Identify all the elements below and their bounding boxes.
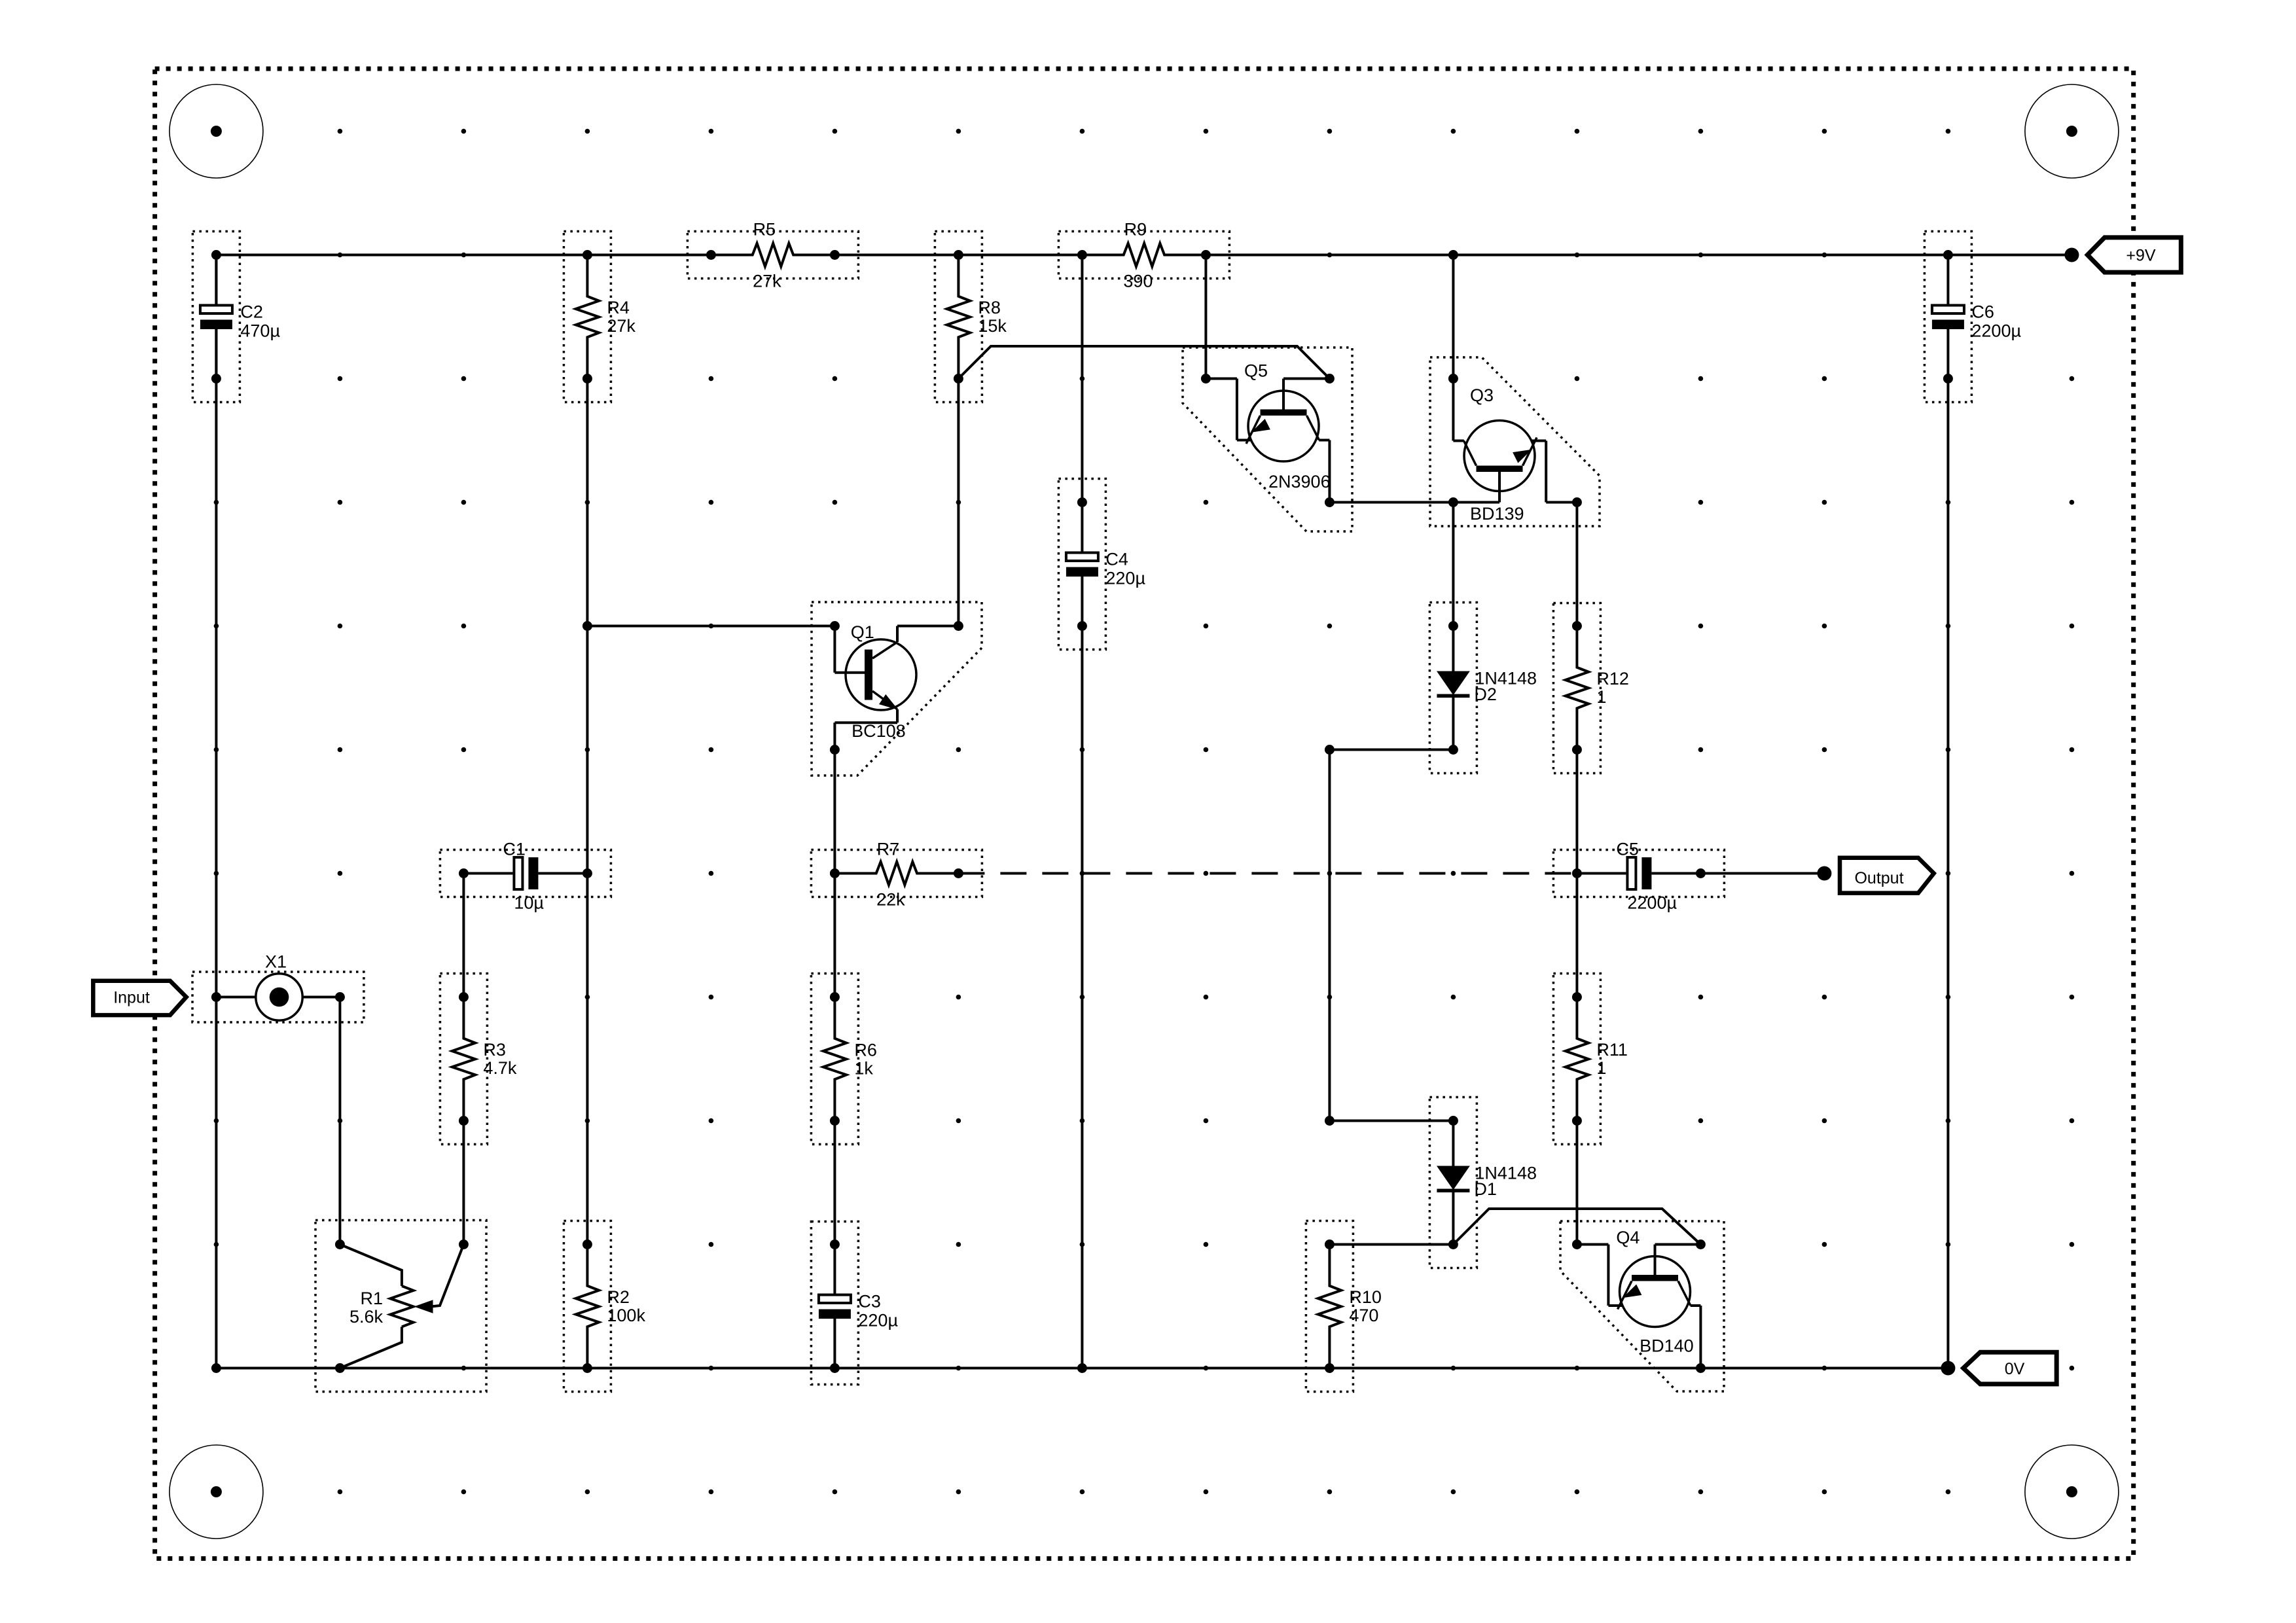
junction c2 r7 [459, 992, 469, 1002]
svg-text:C5: C5 [1616, 840, 1639, 859]
svg-text:2200µ: 2200µ [1627, 893, 1677, 913]
svg-text:2200µ: 2200µ [1971, 321, 2021, 341]
svg-text:10µ: 10µ [514, 893, 544, 913]
wire r8 link [1329, 1120, 1453, 1122]
junction c10 r3 [1448, 497, 1458, 507]
capacitor C3 [811, 1222, 858, 1385]
svg-text:R12: R12 [1596, 669, 1629, 688]
svg-text:R7: R7 [877, 840, 900, 859]
label Q1 [851, 622, 906, 741]
label C4 [1105, 550, 1145, 588]
svg-text:Output: Output [1854, 869, 1903, 887]
label R2 [607, 1287, 645, 1325]
capacitor C4 [1058, 479, 1105, 650]
junction c5 r5 [830, 745, 840, 755]
junction c5 r7 [830, 992, 840, 1002]
label X1 [265, 952, 287, 972]
junction c6 r1 [954, 250, 963, 260]
terminal 0V flag [1964, 1352, 2057, 1384]
wire c5 R7 to R6 [833, 874, 836, 997]
wire c0 vertical (C2/input column) [215, 255, 217, 1368]
label Q3 [1470, 385, 1524, 524]
svg-text:4.7k: 4.7k [483, 1058, 517, 1078]
wire c3 R4 to R2 [586, 379, 588, 1245]
wire c2 C1 to R3 [462, 874, 465, 997]
label Q4 [1616, 1228, 1693, 1356]
svg-text:1k: 1k [854, 1058, 873, 1078]
dashed feedback wire R7 to C5 [958, 872, 1577, 875]
junction c12 r10 [1696, 1363, 1706, 1373]
wire c11 Q3 emitter to R12 [1575, 503, 1578, 626]
label R12 [1596, 669, 1629, 707]
resistor R3 [440, 974, 487, 1145]
junction c11 r6 [1572, 868, 1582, 878]
svg-text:C1: C1 [503, 840, 526, 859]
junction c1 r10 [335, 1363, 345, 1373]
label R7 [876, 840, 905, 910]
junction c5 r1 [830, 250, 840, 260]
transistor Q5 [1183, 348, 1352, 531]
label R9 [1123, 220, 1153, 291]
page border [155, 69, 2134, 1559]
wire c1 X1 to R1 [338, 997, 341, 1245]
svg-text:15k: 15k [978, 316, 1007, 336]
svg-text:2N3906: 2N3906 [1268, 472, 1331, 491]
capacitor C6 [1924, 232, 1971, 402]
svg-text:390: 390 [1123, 272, 1153, 291]
label C3 [858, 1292, 898, 1330]
wire c10 rail to Q3 collector [1452, 255, 1454, 379]
junction c6 r4 [954, 621, 963, 631]
resistor R5 [687, 232, 858, 279]
junction c11 r4 [1572, 621, 1582, 631]
junction c12 r9 [1696, 1240, 1706, 1249]
resistor R11 [1553, 974, 1600, 1145]
wire R8 bridge to Q5 base [958, 346, 1329, 379]
label R10 [1349, 1287, 1382, 1325]
svg-text:Q1: Q1 [851, 622, 874, 642]
svg-text:220µ: 220µ [858, 1311, 898, 1330]
terminal +9V flag [2087, 238, 2181, 272]
svg-text:C3: C3 [858, 1292, 881, 1311]
junction c11 r9 [1572, 1240, 1582, 1249]
junction c9 r10 [1325, 1363, 1335, 1373]
wire c11 R12 to C5 node [1575, 750, 1578, 874]
junction c11 r3 [1572, 497, 1582, 507]
wire r4 base feed [587, 625, 834, 628]
junction c3 r4 [583, 621, 592, 631]
junction c3 r1 [583, 250, 592, 260]
svg-text:100k: 100k [607, 1306, 645, 1325]
resistor R12 [1553, 603, 1600, 774]
svg-text:R3: R3 [483, 1040, 506, 1060]
corner registration circle top-right [2025, 84, 2119, 178]
junction c0 r7 [211, 992, 221, 1002]
label R4 [607, 298, 636, 336]
svg-text:C4: C4 [1105, 550, 1128, 569]
terminal Output flag [1840, 858, 1934, 893]
wire c11 C5 node to R11 [1575, 874, 1578, 997]
junction c2 r6 [459, 868, 469, 878]
label 0V [2005, 1360, 2025, 1378]
wire c6 R8 to Q1 collector [957, 379, 960, 626]
svg-text:+9V: +9V [2126, 247, 2156, 265]
svg-text:1: 1 [1596, 1058, 1606, 1078]
junction c3 r10 [583, 1363, 592, 1373]
junction c0 r10 [211, 1363, 221, 1373]
resistor R6 [811, 974, 858, 1145]
wire c5 Q1 emitter to R7 [833, 750, 836, 874]
svg-text:BC108: BC108 [852, 721, 906, 741]
junction c5 r4 [830, 621, 840, 631]
label C5 [1616, 840, 1677, 913]
svg-text:Q3: Q3 [1470, 385, 1494, 405]
transistor Q4 [1560, 1221, 1724, 1391]
svg-text:22k: 22k [876, 889, 905, 909]
junction c9 r8 [1325, 1116, 1335, 1126]
junction c2 r8 [459, 1116, 469, 1126]
junction c12 r6 [1696, 868, 1706, 878]
wire X1 right pin [302, 996, 340, 999]
junction c8 r2 [1201, 374, 1211, 383]
svg-text:0V: 0V [2005, 1360, 2025, 1378]
svg-text:27k: 27k [607, 316, 636, 336]
svg-text:D2: D2 [1474, 685, 1497, 704]
junction c10 r9 [1448, 1240, 1458, 1249]
potentiometer R1 [315, 1221, 486, 1392]
label R3 [483, 1040, 517, 1078]
svg-text:D1: D1 [1474, 1179, 1497, 1199]
junction c3 r6 [583, 868, 592, 878]
wire c2 R3 to wiper node [462, 1121, 465, 1245]
junction c6 r6 [954, 868, 963, 878]
junction c5 r8 [830, 1116, 840, 1126]
corner registration circle top-left [170, 84, 263, 178]
svg-text:470: 470 [1349, 1306, 1378, 1325]
label R11 [1596, 1040, 1628, 1078]
svg-text:C6: C6 [1971, 302, 1994, 322]
junction c9 r2 [1325, 374, 1335, 383]
junction c1 r7 [335, 992, 345, 1002]
wire +9V rail middle segment [793, 254, 1124, 257]
diode D1 [1429, 1097, 1477, 1268]
svg-text:Input: Input [113, 988, 150, 1007]
junction c9 r5 [1325, 745, 1335, 755]
junction c3 r2 [583, 374, 592, 383]
junction c3 r9 [583, 1240, 592, 1249]
svg-text:R10: R10 [1349, 1287, 1382, 1307]
label D2 [1474, 669, 1537, 705]
svg-text:220µ: 220µ [1105, 569, 1145, 588]
label C1 [503, 840, 544, 913]
wire X1 left pin [216, 996, 255, 999]
wire c5 R6 to C3 [833, 1121, 836, 1245]
connector X1 [192, 972, 364, 1022]
svg-text:X1: X1 [265, 952, 287, 972]
svg-text:1: 1 [1596, 687, 1606, 707]
wire c9 bias chain upper [1328, 750, 1331, 1121]
resistor R2 [564, 1221, 611, 1392]
junction c6 r2 [954, 374, 963, 383]
svg-text:Q5: Q5 [1244, 361, 1268, 381]
transistor Q1 [812, 602, 982, 776]
junction c0 r2 [211, 374, 221, 383]
svg-text:Q4: Q4 [1616, 1228, 1640, 1247]
svg-text:R5: R5 [753, 220, 776, 240]
corner registration circle bottom-right [2025, 1445, 2119, 1539]
svg-text:R2: R2 [607, 1287, 630, 1307]
capacitor C1 [440, 850, 611, 897]
label C6 [1971, 302, 2021, 341]
transistor Q3 [1430, 357, 1600, 526]
wire c7 C4 to 0V [1081, 626, 1083, 1368]
junction c7 r10 [1077, 1363, 1087, 1373]
terminal 0V dot [1941, 1361, 1955, 1376]
junction c10 r8 [1448, 1116, 1458, 1126]
label Input [113, 988, 150, 1007]
svg-text:BD140: BD140 [1640, 1336, 1694, 1356]
junction c11 r7 [1572, 992, 1582, 1002]
junction c10 r5 [1448, 745, 1458, 755]
wire c11 R11 to Q4 emitter [1575, 1121, 1578, 1245]
terminal Input flag [93, 981, 186, 1015]
junction c9 r3 [1325, 497, 1335, 507]
label R6 [854, 1040, 877, 1078]
wire c7 rail to C4 [1081, 255, 1083, 503]
svg-text:R1: R1 [360, 1289, 383, 1308]
svg-text:470µ: 470µ [240, 321, 280, 341]
svg-text:BD139: BD139 [1470, 504, 1524, 524]
junction c14 r2 [1943, 374, 1953, 383]
svg-text:R4: R4 [607, 298, 630, 317]
wire +9V rail right segment [1164, 254, 2072, 257]
junction c10 r1 [1448, 250, 1458, 260]
resistor R8 [935, 232, 982, 402]
junction c10 r2 [1448, 374, 1458, 383]
svg-text:C2: C2 [240, 302, 263, 322]
label +9V [2126, 247, 2156, 265]
junction c9 r9 [1325, 1240, 1335, 1249]
label R8 [978, 298, 1007, 336]
junction c5 r10 [830, 1363, 840, 1373]
label Q5 [1244, 361, 1331, 492]
label R5 [753, 220, 781, 291]
svg-text:27k: 27k [753, 272, 781, 291]
label C2 [240, 302, 280, 341]
junction c5 r9 [830, 1240, 840, 1249]
junction c4 r1 [706, 250, 716, 260]
svg-text:5.6k: 5.6k [350, 1307, 384, 1327]
junction c7 r1 [1077, 250, 1087, 260]
junction c7 r3 [1077, 497, 1087, 507]
svg-text:R6: R6 [854, 1040, 877, 1060]
resistor R10 [1306, 1221, 1353, 1392]
diode D2 [1429, 603, 1477, 774]
resistor R7 [811, 850, 982, 897]
terminal +9V dot [2064, 248, 2079, 262]
wire r3 Q5 collector to Q3 base [1329, 501, 1499, 504]
resistor R4 [564, 232, 611, 402]
junction c8 r1 [1201, 250, 1211, 260]
wire r9 D1 to R10 [1329, 1243, 1453, 1246]
svg-text:R11: R11 [1596, 1040, 1628, 1060]
resistor R9 [1058, 232, 1229, 279]
capacitor C5 [1553, 850, 1724, 897]
svg-text:R8: R8 [978, 298, 1001, 317]
corner registration circle bottom-left [170, 1445, 263, 1539]
junction c7 r4 [1077, 621, 1087, 631]
label Output [1854, 869, 1903, 887]
svg-text:R9: R9 [1124, 220, 1147, 240]
capacitor C2 [192, 232, 240, 402]
junction c11 r8 [1572, 1116, 1582, 1126]
label R1 [350, 1289, 384, 1327]
junction c5 r6 [830, 868, 840, 878]
wire D1 bridge to Q4 base [1453, 1209, 1700, 1245]
junction c0 r1 [211, 250, 221, 260]
wire c10 Q3 base to D2 [1452, 503, 1454, 626]
wire c14 C6 to 0V [1946, 379, 1949, 1368]
wire r5 link [1329, 749, 1453, 751]
terminal Output dot [1817, 866, 1831, 881]
label D1 [1474, 1164, 1537, 1200]
grid dots [214, 129, 2075, 1495]
wire +9V rail left segment [216, 254, 752, 257]
junction c11 r5 [1572, 745, 1582, 755]
junction c14 r1 [1943, 250, 1953, 260]
wire c8 rail to Q5 emitter [1204, 255, 1207, 379]
wire 0V rail [216, 1367, 1948, 1370]
junction c2 r9 [459, 1240, 469, 1249]
wire C5 to output terminal [1700, 872, 1824, 875]
junction c10 r4 [1448, 621, 1458, 631]
junction c1 r9 [335, 1240, 345, 1249]
